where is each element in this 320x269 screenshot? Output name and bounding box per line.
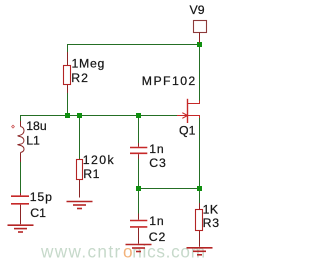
svg-text:1n: 1n — [149, 142, 164, 156]
svg-text:L1: L1 — [26, 134, 40, 148]
capacitor C2 — [130, 214, 147, 244]
svg-text:R3: R3 — [203, 216, 220, 230]
svg-text:R2: R2 — [71, 71, 89, 85]
capacitor C1 — [11, 193, 29, 224]
wire drain vertical V9 junction to Q1 drain — [199, 45, 201, 102]
junction node R1/gate wire — [77, 113, 82, 118]
svg-text:R1: R1 — [83, 167, 100, 181]
wire lower node horizontal C3/C2 node to source node — [139, 188, 200, 190]
wire R3 top from source node down — [199, 189, 201, 204]
transistor Q1 MPF102 — [177, 99, 200, 123]
junction node R2/gate wire — [65, 113, 70, 118]
ground at R1 — [67, 202, 93, 209]
inductor L1 — [18, 121, 24, 162]
wire R2 bottom lead to gate wire — [67, 91, 69, 116]
resistor R3 — [196, 203, 203, 247]
wire L1 bottom to C1 top — [20, 162, 22, 194]
svg-text:C3: C3 — [149, 156, 166, 170]
wire Q1 source down to source node — [199, 117, 201, 189]
svg-text:V9: V9 — [190, 3, 205, 17]
capacitor C3 — [130, 143, 147, 159]
svg-text:MPF102: MPF102 — [142, 74, 197, 88]
svg-text:www.cntr: www.cntr — [40, 242, 122, 262]
svg-text:C2: C2 — [149, 230, 166, 244]
wire C3 top from gate wire down — [138, 116, 140, 144]
wire C2 top from lower node down — [138, 189, 140, 214]
junction node C3/gate wire — [136, 113, 141, 118]
svg-text:1K: 1K — [203, 203, 219, 217]
svg-text:120k: 120k — [83, 153, 115, 167]
ground at C2 — [126, 245, 152, 252]
junction node C3/C2 lower node — [136, 186, 141, 191]
junction node at V9 drain wire — [197, 42, 202, 47]
svg-text:1n: 1n — [149, 214, 164, 228]
resistor R2 — [64, 52, 71, 93]
wire top horizontal from R2 corner to V9 junction — [68, 45, 200, 59]
wire gate horizontal from L1 corner to Q1 gate — [21, 116, 179, 122]
wire C3 bottom to lower node — [138, 159, 140, 189]
voltage source V9 — [194, 21, 207, 44]
resistor R1 — [77, 160, 83, 198]
svg-text:18u: 18u — [26, 119, 47, 133]
svg-text:Q1: Q1 — [179, 124, 196, 138]
ground at C1 — [8, 225, 34, 232]
svg-text:1Meg: 1Meg — [72, 57, 106, 71]
junction node source/R3 node — [197, 186, 202, 191]
pin marker L1 — [12, 125, 15, 128]
watermark www.cntronics.com — [40, 242, 206, 262]
ground at R3 — [187, 248, 213, 255]
svg-text:C1: C1 — [30, 206, 46, 220]
svg-text:15p: 15p — [30, 190, 53, 204]
wire R1 top from gate wire down — [79, 116, 81, 161]
